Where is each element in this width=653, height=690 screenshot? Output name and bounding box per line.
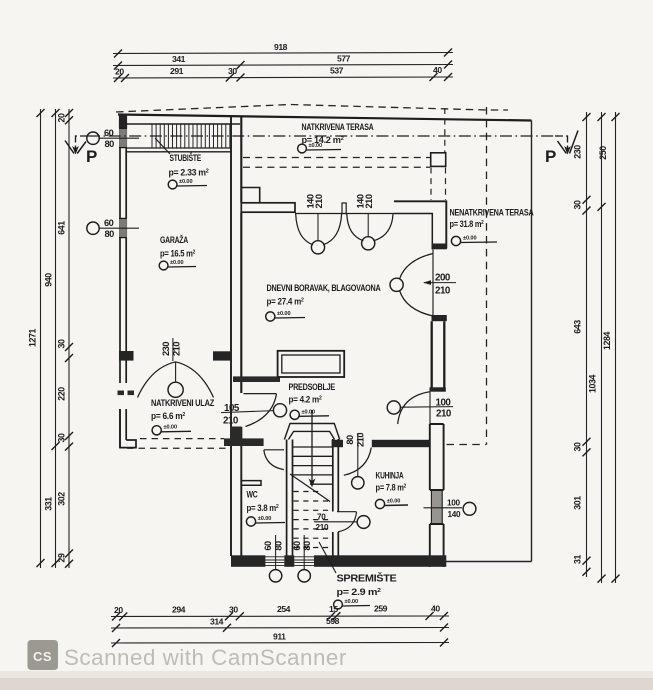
NE corner wall outer xyxy=(394,201,446,248)
WC west wall faces xyxy=(231,446,241,556)
svg-text:30: 30 xyxy=(573,442,583,451)
top wall inner face (stair north) xyxy=(126,123,240,125)
svg-text:60: 60 xyxy=(263,541,273,551)
pillar dashed connectors xyxy=(444,108,446,152)
ticks left line 940/331 xyxy=(52,109,60,567)
svg-text:918: 918 xyxy=(274,42,288,52)
terrace door2 140/210 arcs xyxy=(347,214,393,241)
svg-text:±0.00: ±0.00 xyxy=(258,516,271,522)
svg-text:20: 20 xyxy=(115,67,124,77)
svg-text:301: 301 xyxy=(573,496,583,510)
west wall top corner block xyxy=(119,114,127,128)
svg-text:230: 230 xyxy=(161,342,171,356)
svg-text:p= 6.6 m2: p= 6.6 m2 xyxy=(151,411,185,421)
top dimension line 918 xyxy=(113,53,453,54)
svg-text:60: 60 xyxy=(104,128,114,138)
understair door 70/210 leaf and arc xyxy=(337,511,357,513)
stair top funnel xyxy=(284,424,339,440)
window 60/80 upper (west wall) xyxy=(119,128,127,148)
svg-text:1034: 1034 xyxy=(588,375,598,393)
living room north wall bar xyxy=(241,203,295,212)
room label SPREMISTE with leader xyxy=(319,542,336,573)
svg-text:30: 30 xyxy=(57,339,67,348)
svg-text:200: 200 xyxy=(435,273,451,284)
svg-text:P: P xyxy=(545,147,556,166)
svg-text:40: 40 xyxy=(431,604,440,614)
svg-text:577: 577 xyxy=(337,54,351,64)
svg-text:314: 314 xyxy=(210,617,224,627)
garage south wall east stub xyxy=(213,351,231,360)
ticks left line1271 xyxy=(37,109,45,567)
stair solid treads xyxy=(293,447,333,484)
label 200/210 with arrow xyxy=(424,282,456,284)
stubiste stair bottom double line xyxy=(126,147,231,149)
room label STUBISTE xyxy=(155,138,170,154)
svg-text:100: 100 xyxy=(447,499,461,508)
svg-text:±0.00: ±0.00 xyxy=(170,260,183,266)
ticks top row2 xyxy=(114,61,452,70)
garage double door 230/210 arcs xyxy=(138,362,214,398)
svg-text:30: 30 xyxy=(228,66,237,76)
svg-text:STUBIŠTE: STUBIŠTE xyxy=(170,152,202,163)
section P marker right xyxy=(555,136,568,149)
east window bottom cap xyxy=(430,387,446,391)
porch dashed edge lines xyxy=(140,438,224,440)
svg-text:CS: CS xyxy=(33,649,52,664)
closet inner rect xyxy=(282,355,340,373)
svg-text:p= 2.9 m2: p= 2.9 m2 xyxy=(337,587,381,597)
terrace pillar xyxy=(431,153,446,167)
bottom wall south band blocks xyxy=(231,555,265,567)
east door 100 threshold line xyxy=(429,392,431,424)
west window label 60/80 lower with circle xyxy=(87,222,99,234)
right vertical dimension line 250/1034 xyxy=(601,112,603,583)
svg-text:105: 105 xyxy=(224,403,240,414)
chimney step rect xyxy=(241,188,259,204)
left vertical dimension line 20/641/30/220/30/302/29 xyxy=(68,109,70,568)
west window label 60/80 upper with circle xyxy=(87,132,99,144)
ticks right line A xyxy=(583,113,591,576)
svg-text:±0.00: ±0.00 xyxy=(164,425,177,431)
terrace door1 140/210 arcs xyxy=(296,214,342,245)
svg-text:NATKRIVENI ULAZ: NATKRIVENI ULAZ xyxy=(151,398,215,408)
stair dashed treads xyxy=(294,492,332,548)
left vertical dimension line 1271 xyxy=(40,109,42,568)
door jamb post between 140 doors xyxy=(342,203,346,214)
svg-text:30: 30 xyxy=(229,605,238,615)
svg-text:WC: WC xyxy=(247,490,259,500)
wc door leaf and arc xyxy=(264,449,284,451)
svg-text:Scanned with CamScanner: Scanned with CamScanner xyxy=(64,645,347,670)
svg-text:p= 16.5 m2: p= 16.5 m2 xyxy=(160,249,195,259)
svg-text:±0.00: ±0.00 xyxy=(463,236,476,242)
top dimension line 341/577 xyxy=(113,65,453,66)
east fixed window frame xyxy=(432,321,445,388)
WC interior stub wall xyxy=(241,481,261,486)
svg-text:P: P xyxy=(86,147,97,166)
svg-text:641: 641 xyxy=(57,221,67,235)
svg-text:210: 210 xyxy=(223,416,239,427)
WC north wall bar xyxy=(224,438,264,446)
svg-text:291: 291 xyxy=(170,66,184,76)
CamScanner CS badge xyxy=(28,640,59,670)
svg-text:30: 30 xyxy=(573,200,583,209)
west wall inner face xyxy=(125,124,127,440)
svg-text:SPREMIŠTE: SPREMIŠTE xyxy=(337,572,398,585)
svg-text:140: 140 xyxy=(448,510,462,519)
svg-text:220: 220 xyxy=(57,387,67,401)
top boundary line (roof edge) xyxy=(118,115,532,121)
kitchen north wall xyxy=(332,440,343,447)
nenatkrivena terasa dashed boundary xyxy=(486,107,488,445)
svg-text:210: 210 xyxy=(364,194,374,208)
section P marker left xyxy=(76,136,89,149)
svg-text:259: 259 xyxy=(374,604,388,614)
ticks left line third xyxy=(65,109,73,568)
svg-text:NENATKRIVENA TERASA: NENATKRIVENA TERASA xyxy=(450,208,535,218)
svg-text:210: 210 xyxy=(435,286,451,297)
svg-text:NATKRIVENA TERASA: NATKRIVENA TERASA xyxy=(302,122,375,132)
spine wall west face (garage/entry east boundary) xyxy=(230,116,232,446)
natkrivena terasa dashed lines xyxy=(243,157,430,159)
svg-text:80: 80 xyxy=(302,541,312,551)
svg-text:210: 210 xyxy=(172,342,182,356)
svg-text:20: 20 xyxy=(57,113,67,122)
svg-text:±0.00: ±0.00 xyxy=(277,311,290,317)
svg-text:60: 60 xyxy=(292,541,302,551)
east double door 200/210 arcs xyxy=(400,254,434,317)
svg-text:331: 331 xyxy=(44,497,54,511)
svg-text:643: 643 xyxy=(573,320,583,334)
svg-text:230: 230 xyxy=(573,145,583,159)
svg-text:60: 60 xyxy=(104,218,114,228)
svg-text:254: 254 xyxy=(277,604,291,614)
kitchen door 80/210 arc xyxy=(344,448,372,476)
svg-text:1284: 1284 xyxy=(602,332,612,350)
spine wall east face xyxy=(240,116,242,440)
svg-text:80: 80 xyxy=(274,541,284,551)
bottom window 1 thin lines xyxy=(265,557,284,566)
svg-text:302: 302 xyxy=(57,492,67,506)
bottom dimension line row3 911 xyxy=(111,642,449,645)
svg-text:DNEVNI BORAVAK, BLAGOVAONA: DNEVNI BORAVAK, BLAGOVAONA xyxy=(267,283,382,293)
right vertical dimension line 230/30/643/30/301/31 xyxy=(586,112,588,577)
svg-text:911: 911 xyxy=(273,632,286,642)
svg-text:±0.00: ±0.00 xyxy=(309,143,322,149)
glass wall sill line xyxy=(295,213,394,215)
svg-text:p= 27.4 m2: p= 27.4 m2 xyxy=(267,297,304,307)
stair break line xyxy=(290,474,330,502)
terrace outline bottom edge xyxy=(444,561,532,563)
svg-text:GARAŽA: GARAŽA xyxy=(160,234,189,245)
predsoblje north wall bar xyxy=(233,376,280,382)
NE corner wall inner xyxy=(394,214,432,244)
svg-text:294: 294 xyxy=(172,605,186,615)
svg-text:p= 31.8 m2: p= 31.8 m2 xyxy=(450,219,484,229)
svg-text:p= 2.33 m2: p= 2.33 m2 xyxy=(169,168,209,178)
svg-text:31: 31 xyxy=(573,555,583,564)
window 60/80 lower (west wall) xyxy=(119,218,127,238)
east wall piece (door100 to window) xyxy=(430,424,444,490)
right vertical dimension line 1284 xyxy=(615,112,617,583)
stair east / kitchen west wall xyxy=(333,439,339,556)
bottom window 1 label and circle xyxy=(275,535,277,570)
svg-text:537: 537 xyxy=(330,66,344,76)
kitchen window label 100/140 xyxy=(424,507,463,509)
svg-text:20: 20 xyxy=(114,605,123,615)
ticks bottom row1 xyxy=(112,612,448,621)
ticks right line C xyxy=(612,113,620,583)
ticks bottom row2 xyxy=(112,624,448,633)
svg-text:p= 4.2 m2: p= 4.2 m2 xyxy=(289,395,322,405)
east window 100/140 xyxy=(431,491,443,524)
ticks bottom row3 xyxy=(112,639,448,648)
top dashed overhang line xyxy=(116,105,508,113)
stair west wall faces xyxy=(287,440,293,557)
east wall cap above window xyxy=(432,315,447,321)
svg-text:80: 80 xyxy=(105,229,115,239)
section line P-P dash-dot xyxy=(88,135,560,137)
svg-text:1271: 1271 xyxy=(28,329,38,347)
east door 100/210 arc xyxy=(398,392,430,424)
stair down arrow xyxy=(311,410,313,482)
predsoblje door 105/210 leaf and arc xyxy=(244,393,277,395)
svg-text:±0.00: ±0.00 xyxy=(345,599,358,605)
ticks right line B xyxy=(598,113,606,583)
terrace outline right edge xyxy=(531,121,533,562)
svg-text:40: 40 xyxy=(433,65,442,75)
west wall outer face xyxy=(119,115,121,448)
svg-text:210: 210 xyxy=(436,409,452,420)
svg-text:±0.00: ±0.00 xyxy=(302,410,315,416)
east wall piece below window xyxy=(430,524,444,567)
top dimension line 20/291/30/537/40 xyxy=(113,77,453,78)
svg-text:p= 7.8 m2: p= 7.8 m2 xyxy=(376,483,407,493)
svg-text:210: 210 xyxy=(314,194,324,208)
svg-text:80: 80 xyxy=(105,139,115,149)
bottom window 2 label and circle xyxy=(303,535,305,570)
west wall porch dashes xyxy=(118,391,125,396)
svg-text:KUHINJA: KUHINJA xyxy=(376,471,405,481)
svg-text:341: 341 xyxy=(172,54,186,64)
ticks top row3 xyxy=(114,73,452,82)
west wall bottom L corner foot xyxy=(120,409,136,448)
garage door rotated label 230/210 xyxy=(172,338,174,361)
svg-text:598: 598 xyxy=(326,616,340,626)
NE corner wall bottom cap xyxy=(432,244,447,250)
svg-text:±0.00: ±0.00 xyxy=(387,499,400,505)
svg-text:±0.00: ±0.00 xyxy=(179,179,192,185)
svg-text:210: 210 xyxy=(355,433,365,447)
bottom dimension line row2 314/598 xyxy=(111,627,449,630)
svg-text:29: 29 xyxy=(57,553,67,562)
svg-text:250: 250 xyxy=(598,146,608,160)
garage south wall west stub xyxy=(119,351,134,361)
ticks top row1 xyxy=(114,49,452,58)
svg-text:210: 210 xyxy=(316,523,330,532)
east door 200 threshold line xyxy=(432,249,434,316)
svg-text:PREDSOBLJE: PREDSOBLJE xyxy=(289,382,336,392)
closet outer rect xyxy=(278,351,345,377)
svg-text:940: 940 xyxy=(44,273,54,287)
svg-text:70: 70 xyxy=(317,513,326,522)
left vertical dimension line 940/331 xyxy=(55,109,57,568)
svg-text:p= 3.8 m2: p= 3.8 m2 xyxy=(247,503,279,513)
stubiste stair treads xyxy=(152,124,230,148)
svg-text:30: 30 xyxy=(57,433,67,442)
svg-text:100: 100 xyxy=(436,398,452,409)
bottom window 2 thin lines xyxy=(294,557,314,566)
bottom dimension line row1 xyxy=(111,615,449,618)
svg-text:80: 80 xyxy=(345,435,355,445)
